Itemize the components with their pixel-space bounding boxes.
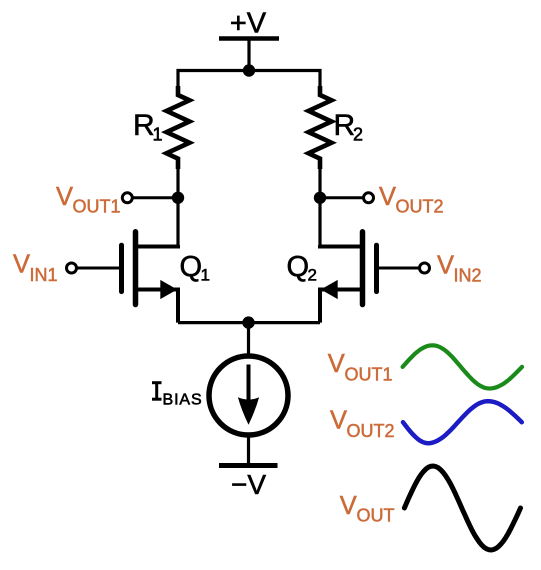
node VOUT1 junction: [172, 192, 184, 204]
svg-text:OUT: OUT: [357, 506, 395, 526]
-V supply bar: [219, 463, 278, 468]
svg-text:IN2: IN2: [454, 266, 482, 286]
svg-text:V: V: [379, 183, 396, 211]
Q2 channel bar: [360, 232, 366, 305]
svg-text:OUT1: OUT1: [345, 365, 393, 385]
svg-text:1: 1: [153, 125, 163, 145]
svg-text:Q: Q: [287, 251, 310, 283]
svg-text:R: R: [334, 109, 356, 142]
resistor R1: [167, 86, 190, 169]
wire VOUT2 stub: [324, 196, 368, 199]
svg-text:V: V: [340, 492, 357, 520]
svg-text:Q: Q: [180, 251, 203, 283]
wire to current source: [247, 323, 250, 358]
wire current source to -V: [247, 435, 250, 466]
terminal VIN1: [67, 263, 77, 273]
svg-text:V: V: [330, 407, 347, 435]
waveform VOUT1 green: [403, 345, 522, 388]
Q2 gate wire: [379, 267, 421, 270]
current source arrow shaft: [247, 365, 251, 401]
+V supply bar: [219, 36, 279, 41]
svg-text:BIAS: BIAS: [163, 392, 203, 409]
svg-text:1: 1: [201, 266, 210, 285]
svg-text:V: V: [56, 183, 73, 211]
Q2 source leg: [320, 290, 361, 323]
wire top rail: [178, 71, 320, 89]
svg-text:V: V: [328, 350, 345, 378]
Q1 gate bar: [119, 245, 124, 291]
Q1 drain leg: [138, 245, 179, 247]
wire R2 to Q2 drain: [318, 167, 321, 247]
Q2 source arrow: [321, 280, 338, 299]
wire +V to top rail: [247, 39, 250, 71]
current source IBIAS: [209, 356, 288, 435]
Q2 gate bar: [374, 245, 379, 291]
transistor Q1: [77, 232, 178, 323]
svg-text:2: 2: [353, 125, 363, 145]
node top rail junction: [243, 64, 255, 76]
current source arrowhead: [238, 397, 259, 425]
Q1 gate wire: [77, 267, 119, 270]
wire VOUT1 stub: [130, 196, 174, 199]
waveform VOUT black: [404, 466, 520, 550]
node source junction: [242, 316, 254, 328]
svg-text:2: 2: [308, 266, 317, 285]
svg-text:OUT2: OUT2: [347, 421, 395, 441]
svg-text:+V: +V: [230, 7, 267, 39]
node VOUT2 junction: [314, 192, 326, 204]
terminal VOUT1: [122, 193, 132, 203]
terminal VIN2: [420, 263, 430, 273]
svg-text:V: V: [437, 251, 454, 279]
svg-text:−V: −V: [231, 469, 266, 500]
transistor Q2: [320, 232, 421, 323]
Q1 channel bar: [133, 232, 139, 305]
terminal VOUT2: [364, 193, 374, 203]
Q2 drain leg: [320, 245, 361, 247]
Q1 source leg: [138, 290, 179, 323]
Q1 source arrow: [160, 280, 177, 299]
waveform VOUT2 blue: [403, 401, 522, 443]
wire R1 to Q1 drain: [176, 167, 179, 247]
svg-text:OUT1: OUT1: [73, 197, 121, 217]
wire bottom rail: [178, 321, 320, 324]
svg-text:V: V: [13, 250, 30, 278]
svg-text:R: R: [133, 109, 155, 142]
resistor R2: [309, 86, 332, 169]
svg-text:IN1: IN1: [30, 265, 58, 285]
svg-text:OUT2: OUT2: [396, 197, 444, 217]
label IBIAS: [152, 382, 162, 400]
